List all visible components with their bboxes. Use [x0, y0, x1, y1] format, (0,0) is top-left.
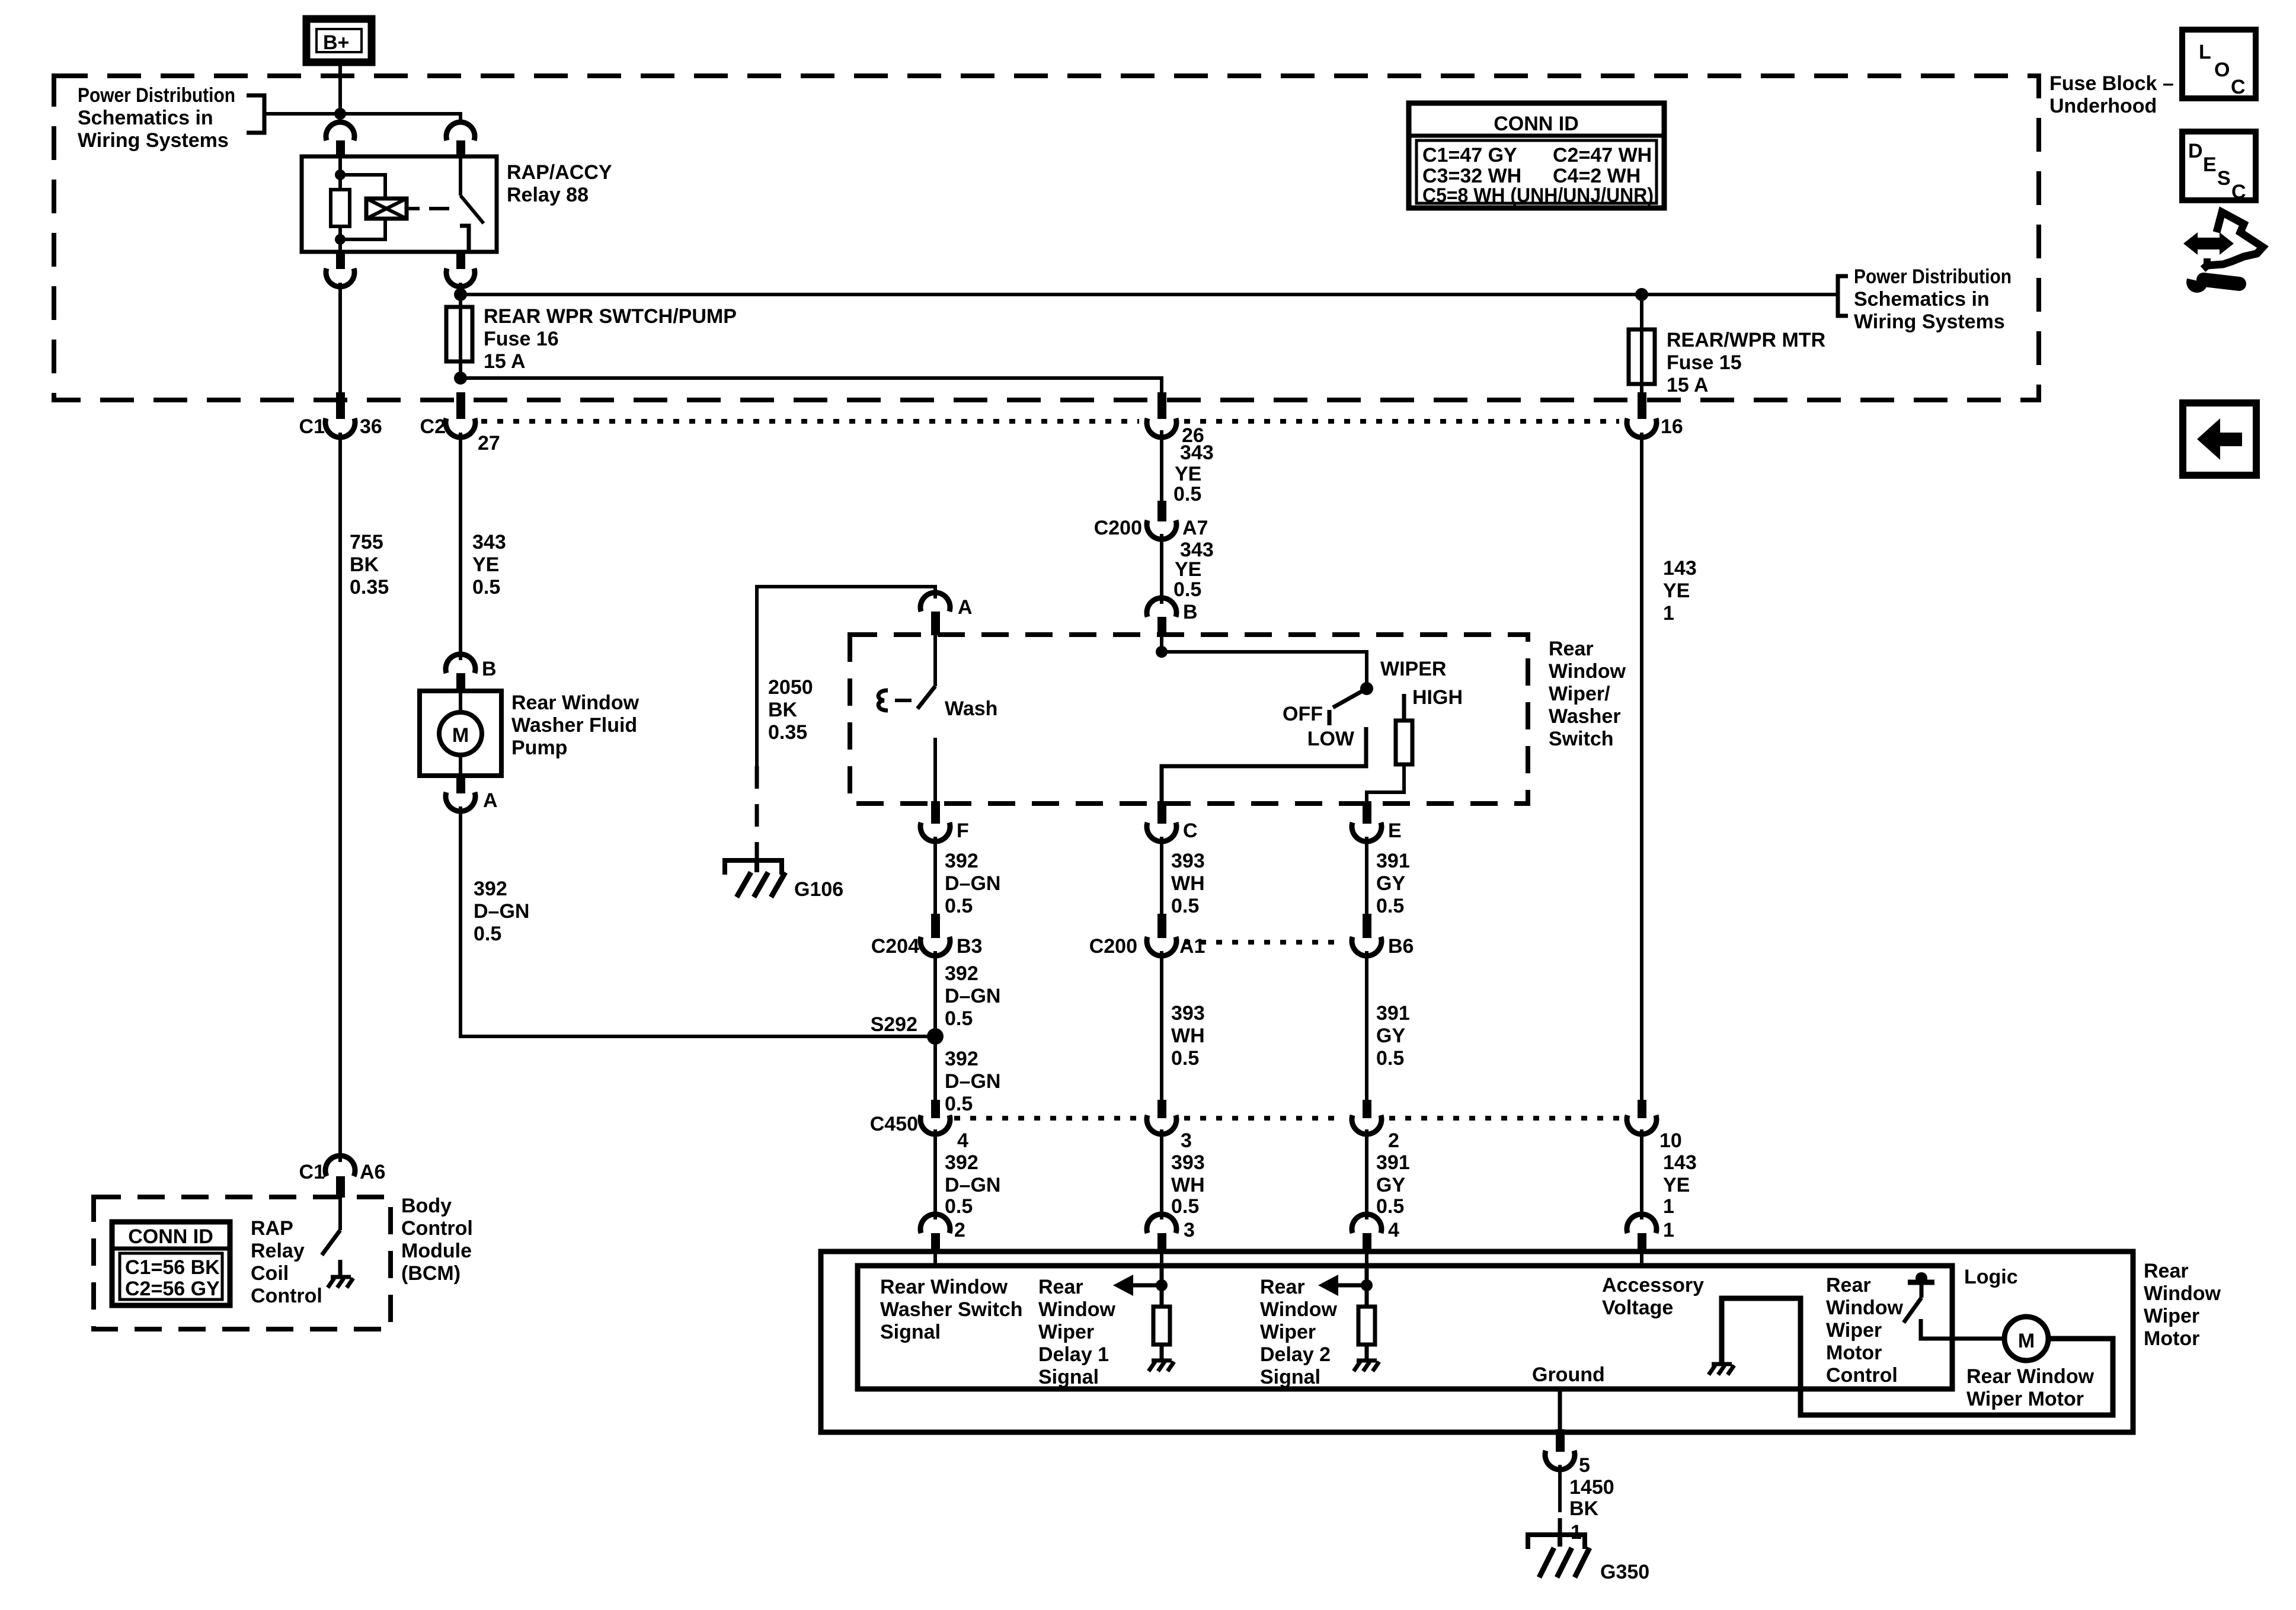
wire 5 to G350 — [1558, 1465, 1562, 1512]
svg-text:Delay 1: Delay 1 — [1038, 1343, 1109, 1366]
connector 16 — [1627, 392, 1683, 438]
svg-text:L: L — [2199, 41, 2211, 63]
wire pin4 into inner box — [1365, 1251, 1368, 1268]
svg-text:Wiper: Wiper — [1826, 1319, 1882, 1342]
connector C2 27 — [420, 392, 500, 454]
svg-text:392: 392 — [945, 962, 978, 985]
wire 26 down to C200 — [1160, 430, 1163, 504]
Body Control Module dashed box — [94, 1197, 391, 1329]
wire pump A down and across to S292 — [461, 806, 935, 1036]
svg-text:Signal: Signal — [1260, 1366, 1320, 1388]
svg-text:Schematics in: Schematics in — [78, 107, 213, 129]
motor pump M — [439, 712, 482, 755]
label Accessory Voltage — [1602, 1274, 1704, 1319]
wire relay coil feed — [338, 156, 342, 190]
svg-text:1450: 1450 — [1569, 1476, 1614, 1499]
wire label 1450 BK 1 — [1569, 1476, 1614, 1544]
connector C200 A1 — [1089, 914, 1205, 958]
node fuse15 top junction — [1635, 288, 1648, 301]
svg-text:0.5: 0.5 — [945, 1195, 973, 1218]
connector relay pin (coil) top — [326, 122, 354, 140]
wire relay switch common — [459, 156, 462, 196]
svg-text:0.5: 0.5 — [1173, 578, 1201, 601]
wire label 343 YE 0.5 (A7) — [1173, 539, 1214, 601]
svg-text:Relay: Relay — [251, 1240, 305, 1262]
wire B to wiper pivot — [1162, 637, 1367, 689]
svg-text:1: 1 — [1663, 1195, 1674, 1218]
wire label 392 D-GN 0.5 (pump) — [474, 878, 529, 945]
bracket to power distribution label (left) — [247, 95, 264, 133]
svg-text:393: 393 — [1171, 1002, 1205, 1025]
ground BCM internal — [328, 1277, 353, 1288]
svg-text:0.5: 0.5 — [1376, 1195, 1404, 1218]
svg-text:O: O — [2214, 59, 2230, 81]
svg-text:143: 143 — [1663, 1151, 1697, 1174]
svg-text:0.35: 0.35 — [768, 721, 807, 744]
wire F to C204 — [933, 837, 937, 917]
svg-text:LOW: LOW — [1307, 728, 1355, 750]
connector A (wash) — [920, 593, 973, 635]
label Fuse 15 — [1667, 329, 1825, 396]
svg-text:Washer: Washer — [1549, 705, 1621, 728]
svg-text:GY: GY — [1376, 872, 1405, 895]
svg-text:M: M — [452, 724, 469, 747]
CONN ID table (BCM) — [112, 1222, 230, 1305]
svg-text:C: C — [1183, 820, 1198, 842]
wire delay2 to ground — [1365, 1345, 1369, 1361]
CONN ID table (fuse block) — [1409, 103, 1664, 208]
svg-text:(BCM): (BCM) — [401, 1262, 461, 1285]
motor rear wiper M — [2004, 1317, 2048, 1361]
connector E — [1352, 801, 1402, 842]
svg-text:Voltage: Voltage — [1602, 1297, 1673, 1319]
Fuse Block - Underhood dashed box — [54, 76, 2039, 400]
svg-text:C204: C204 — [871, 935, 919, 958]
svg-text:YE: YE — [1663, 580, 1690, 602]
svg-text:Control: Control — [251, 1285, 322, 1307]
svg-text:Schematics in: Schematics in — [1854, 288, 1990, 311]
svg-text:Switch: Switch — [1549, 728, 1614, 750]
svg-text:Relay 88: Relay 88 — [507, 184, 589, 206]
svg-text:0.5: 0.5 — [945, 1007, 973, 1030]
svg-text:E: E — [1388, 820, 1402, 842]
svg-text:B3: B3 — [957, 935, 982, 958]
connector relay pin (switch) top — [446, 122, 475, 140]
svg-text:Window: Window — [1260, 1298, 1338, 1321]
wire wash feed horizontal — [757, 587, 935, 766]
connector C450 2 — [1352, 1100, 1399, 1152]
node relay coil bottom — [335, 234, 346, 245]
connector A (pump) — [446, 773, 498, 812]
svg-text:WIPER: WIPER — [1380, 658, 1446, 680]
wire motor return path — [1722, 1298, 2113, 1415]
wire delay2 input — [1365, 1266, 1369, 1307]
svg-text:Wiper: Wiper — [1038, 1321, 1094, 1343]
svg-text:392: 392 — [474, 878, 507, 900]
svg-text:Rear: Rear — [2144, 1260, 2189, 1282]
wire pin2 into inner box — [933, 1251, 937, 1268]
wire from bracket to B+ feed — [264, 112, 340, 116]
svg-text:D–GN: D–GN — [945, 985, 1000, 1007]
wire label 391 GY 0.5 (E) — [1376, 850, 1410, 917]
svg-text:REAR/WPR MTR: REAR/WPR MTR — [1667, 329, 1825, 351]
resistor delay2 — [1358, 1307, 1375, 1345]
label Rear Window Wiper Delay 2 Signal — [1260, 1276, 1338, 1388]
svg-text:Module: Module — [401, 1240, 472, 1262]
connector C1 36 — [299, 392, 382, 438]
wire C450-4 to pin 2 — [933, 1129, 937, 1219]
icon LOC box — [2182, 30, 2256, 98]
svg-text:B: B — [482, 658, 497, 680]
connector C450 4 — [870, 1100, 968, 1152]
svg-text:Signal: Signal — [1038, 1366, 1099, 1388]
svg-text:2050: 2050 — [768, 676, 813, 699]
svg-text:391: 391 — [1376, 1151, 1410, 1174]
svg-text:C450: C450 — [870, 1113, 918, 1135]
svg-text:YE: YE — [1175, 463, 1201, 485]
ground G106 — [725, 860, 843, 901]
wire label 391 GY 0.5 (B6) — [1376, 1002, 1410, 1070]
svg-text:WH: WH — [1171, 1174, 1205, 1196]
svg-text:Motor: Motor — [2144, 1327, 2199, 1350]
svg-text:Ground: Ground — [1532, 1363, 1605, 1386]
connector motor pin 4 — [1352, 1214, 1399, 1252]
svg-text:1: 1 — [1663, 602, 1674, 625]
svg-text:2: 2 — [954, 1219, 965, 1241]
wire HIGH resistor lower — [1367, 764, 1404, 804]
wire label 391 GY 0.5 (C450) — [1376, 1151, 1410, 1218]
svg-text:5: 5 — [1579, 1454, 1590, 1477]
svg-text:Control: Control — [1826, 1364, 1898, 1387]
wire BCM switch lower stub — [338, 1260, 343, 1275]
svg-text:C: C — [2231, 181, 2246, 203]
svg-text:YE: YE — [1663, 1174, 1690, 1196]
svg-text:OFF: OFF — [1283, 703, 1323, 725]
svg-text:C200: C200 — [1089, 935, 1137, 958]
svg-text:Wiper: Wiper — [1260, 1321, 1316, 1343]
svg-text:Underhood: Underhood — [2049, 95, 2157, 117]
svg-text:C2=56 GY: C2=56 GY — [125, 1278, 220, 1300]
wiper OFF contact — [1328, 710, 1332, 725]
svg-text:D–GN: D–GN — [945, 872, 1000, 895]
connector B (pump) — [446, 654, 497, 693]
svg-text:3: 3 — [1184, 1219, 1195, 1241]
svg-text:16: 16 — [1661, 415, 1683, 438]
dotted connector line C450 row — [954, 1116, 1139, 1121]
dotted connector line A1 to B6 — [1184, 940, 1344, 945]
svg-text:0.5: 0.5 — [1171, 1195, 1199, 1218]
svg-text:Rear Window: Rear Window — [1966, 1365, 2094, 1388]
wire wash switch lower — [933, 738, 937, 804]
svg-text:Accessory: Accessory — [1602, 1274, 1704, 1297]
svg-text:343: 343 — [472, 531, 506, 553]
svg-text:15 A: 15 A — [1667, 374, 1709, 396]
wire resistor bottom — [338, 226, 342, 252]
wire motor control contact to motor — [1921, 1319, 2006, 1339]
wire B+ down — [338, 62, 342, 124]
arrow delay2 — [1318, 1275, 1367, 1296]
svg-text:392: 392 — [945, 1048, 978, 1070]
relay coil (crossed box) — [366, 199, 407, 219]
node wiper switch feed junction — [1156, 646, 1168, 658]
wire label 343 YE 0.5 (26) — [1173, 441, 1214, 505]
wire C to C200 A1 — [1160, 837, 1163, 917]
svg-text:391: 391 — [1376, 850, 1410, 872]
connector C450 3 — [1147, 1100, 1192, 1152]
resistor delay1 — [1153, 1307, 1170, 1345]
label Power Distribution Schematics in Wiring Systems (left) — [78, 84, 235, 152]
motor control switch blade — [1904, 1298, 1921, 1323]
ground delay2 — [1354, 1361, 1379, 1371]
wire branch to relay pin 2 — [340, 114, 461, 124]
wire pump motor bottom — [459, 755, 462, 776]
svg-text:0.5: 0.5 — [945, 895, 973, 917]
wash switch fixed contact — [878, 690, 888, 710]
svg-text:Power Distribution: Power Distribution — [78, 84, 235, 107]
svg-text:GY: GY — [1376, 1025, 1405, 1047]
label Rear Window Wiper Motor Control — [1826, 1274, 1904, 1387]
svg-text:S: S — [2217, 167, 2231, 190]
wire A1 down to C450 row — [1160, 951, 1163, 1103]
svg-text:B+: B+ — [323, 31, 349, 54]
svg-text:755: 755 — [350, 531, 383, 553]
wire dashed drop to G106 — [755, 766, 759, 858]
wire 16 down to C450 row — [1640, 433, 1643, 1103]
svg-text:G106: G106 — [794, 878, 843, 901]
dotted connector line C2 to 16 — [481, 419, 1139, 424]
svg-text:Wiper Motor: Wiper Motor — [1966, 1388, 2084, 1410]
ground delay1 — [1149, 1361, 1174, 1371]
wire E to B6 — [1365, 837, 1368, 917]
wire C1 drop to BCM — [338, 433, 342, 1162]
connector C1 A6 — [299, 1156, 386, 1198]
label Body Control Module (BCM) — [401, 1195, 473, 1285]
svg-text:Wiring Systems: Wiring Systems — [1854, 311, 2005, 333]
B+ battery terminal box — [306, 19, 372, 62]
connector relay pin (switch) bottom — [456, 252, 465, 269]
svg-text:Rear: Rear — [1549, 638, 1594, 660]
bracket to power distribution label (right) — [1838, 276, 1848, 316]
svg-text:D–GN: D–GN — [945, 1174, 1000, 1196]
wire delay1 input — [1160, 1266, 1164, 1307]
svg-text:Window: Window — [1038, 1298, 1116, 1321]
wire C200 A7 to B — [1160, 534, 1163, 604]
wire label 393 WH 0.5 (C450) — [1171, 1151, 1205, 1218]
Rear Window Wiper Motor inner box — [858, 1266, 1952, 1389]
wire label 393 WH 0.5 (C) — [1171, 850, 1205, 917]
connector relay pin (coil) bottom — [336, 252, 345, 269]
svg-text:GY: GY — [1376, 1174, 1405, 1196]
wire label 343 YE 0.5 (C2) — [472, 531, 506, 598]
svg-text:Wiper/: Wiper/ — [1549, 683, 1610, 705]
ground motor internal — [1709, 1364, 1734, 1375]
svg-text:F: F — [957, 820, 969, 842]
svg-text:C200: C200 — [1094, 517, 1142, 539]
label Rear Window Wiper Delay 1 Signal — [1038, 1276, 1116, 1388]
svg-text:393: 393 — [1171, 1151, 1205, 1174]
mechanical link dash relay — [429, 207, 449, 210]
wire B6 down to C450 row — [1365, 951, 1368, 1103]
svg-text:HIGH: HIGH — [1412, 686, 1463, 709]
svg-text:A6: A6 — [360, 1161, 385, 1183]
svg-text:1: 1 — [1663, 1219, 1674, 1241]
svg-text:Rear: Rear — [1038, 1276, 1083, 1298]
connector C204 B3 — [871, 914, 983, 958]
wire C450-3 to pin 3 — [1160, 1129, 1163, 1219]
label Rear Window Wiper Motor (right) — [2144, 1260, 2221, 1350]
wash switch blade — [917, 686, 935, 709]
svg-text:Control: Control — [401, 1217, 473, 1240]
label Power Distribution Schematics in Wiring Systems (right) — [1854, 265, 2012, 333]
svg-text:Power Distribution: Power Distribution — [1854, 265, 2012, 288]
svg-text:Delay 2: Delay 2 — [1260, 1343, 1331, 1366]
wire delay1 to ground — [1160, 1345, 1164, 1361]
node fuse16 bottom junction — [454, 372, 467, 385]
svg-text:A: A — [483, 789, 498, 812]
fuse REAR/WPR MTR Fuse 15 — [1629, 295, 1655, 393]
svg-text:Pump: Pump — [511, 737, 567, 759]
wire label 755 BK 0.35 — [350, 531, 389, 598]
svg-text:CONN ID: CONN ID — [1494, 113, 1579, 135]
svg-text:15 A: 15 A — [484, 350, 526, 373]
svg-text:393: 393 — [1171, 850, 1205, 872]
svg-text:Rear: Rear — [1826, 1274, 1871, 1297]
svg-text:Wiring Systems: Wiring Systems — [78, 129, 229, 152]
connector F — [920, 801, 969, 842]
svg-text:Window: Window — [1549, 660, 1626, 683]
svg-text:27: 27 — [478, 432, 500, 454]
label Rear Window Washer Fluid Pump — [511, 692, 639, 759]
wire C450-10 to pin 1 — [1640, 1129, 1643, 1219]
label Rear Window Washer Switch Signal — [880, 1276, 1023, 1343]
svg-text:Logic: Logic — [1964, 1266, 2018, 1288]
label Fuse Block - Underhood — [2049, 72, 2174, 117]
svg-text:Motor: Motor — [1826, 1342, 1882, 1364]
wire label 392 D-GN 0.5 (C450) — [945, 1151, 1000, 1218]
wiper switch blade — [1333, 689, 1367, 708]
node S292 splice — [871, 1013, 944, 1045]
svg-text:D: D — [2188, 140, 2203, 162]
wire BCM switch feed — [338, 1197, 342, 1230]
node relay coil top — [335, 169, 346, 180]
svg-text:Wash: Wash — [945, 697, 997, 720]
svg-text:36: 36 — [360, 415, 382, 438]
svg-text:REAR WPR SWTCH/PUMP: REAR WPR SWTCH/PUMP — [484, 305, 737, 328]
svg-text:392: 392 — [945, 1151, 978, 1174]
svg-text:0.5: 0.5 — [945, 1093, 973, 1115]
svg-text:4: 4 — [1388, 1219, 1399, 1241]
svg-text:0.5: 0.5 — [1376, 895, 1404, 917]
wire label 2050 BK 0.35 — [768, 676, 813, 744]
wire dashed to G350 — [1558, 1518, 1562, 1532]
svg-text:S292: S292 — [871, 1013, 917, 1036]
svg-text:Signal: Signal — [880, 1321, 941, 1343]
svg-text:Window: Window — [1826, 1297, 1904, 1319]
Rear Window Wiper/Washer Switch dashed box — [850, 635, 1528, 804]
svg-text:0.5: 0.5 — [1376, 1047, 1404, 1070]
connector C200 A7 — [1094, 501, 1208, 539]
svg-text:Rear: Rear — [1260, 1276, 1305, 1298]
svg-text:RAP/ACCY: RAP/ACCY — [507, 161, 612, 184]
svg-text:A1: A1 — [1179, 935, 1205, 958]
wire relay out right down to fuse junction — [459, 283, 462, 308]
wire label 143 YE 1 — [1663, 557, 1697, 625]
svg-text:YE: YE — [1175, 558, 1201, 581]
relay RAP/ACCY Relay 88 box — [302, 156, 497, 252]
wire LOW contact path — [1162, 727, 1366, 804]
wire wash switch upper — [933, 635, 937, 686]
svg-text:BK: BK — [350, 553, 379, 576]
svg-text:0.35: 0.35 — [350, 576, 389, 598]
svg-text:392: 392 — [945, 850, 978, 872]
wire C2 down to pump B — [459, 433, 462, 660]
connector motor pin 1 — [1627, 1214, 1674, 1252]
svg-text:143: 143 — [1663, 557, 1697, 580]
svg-text:C1=56 BK: C1=56 BK — [125, 1256, 220, 1279]
svg-text:B: B — [1183, 601, 1198, 623]
mechanical link dash wash — [895, 699, 912, 702]
wire coil bottom branch — [340, 219, 385, 239]
label Fuse 16 — [484, 305, 737, 373]
node B+ branch junction — [334, 108, 346, 120]
connector B (wiper switch) — [1147, 598, 1198, 637]
svg-text:343: 343 — [1180, 441, 1214, 464]
svg-text:C1: C1 — [299, 415, 325, 438]
svg-text:Coil: Coil — [251, 1262, 289, 1285]
wire label 143 YE 1 (C450) — [1663, 1151, 1697, 1218]
svg-text:Rear Window: Rear Window — [880, 1276, 1008, 1298]
wire label 392 D-GN 0.5 (B3) — [945, 962, 1000, 1030]
resistor wiper HIGH dropping resistor — [1396, 721, 1412, 764]
arrow delay1 — [1113, 1275, 1162, 1296]
svg-text:Window: Window — [2144, 1282, 2221, 1305]
svg-text:Fuse Block –: Fuse Block – — [2049, 72, 2174, 95]
node fuse16 top junction — [454, 288, 467, 301]
svg-text:A: A — [958, 596, 973, 619]
connector C — [1147, 801, 1198, 842]
label RAP/ACCY Relay 88 — [507, 161, 612, 206]
connector B6 — [1352, 914, 1414, 958]
svg-text:Wiper: Wiper — [2144, 1305, 2199, 1327]
label Rear Window Wiper/Washer Switch — [1549, 638, 1626, 750]
wire relay out left down to C1 — [338, 283, 342, 393]
wire ground lead inside motor box — [1558, 1389, 1562, 1432]
node wiper pivot — [1360, 682, 1373, 695]
wire pin3 into inner box — [1160, 1251, 1163, 1268]
svg-text:WH: WH — [1171, 872, 1205, 895]
svg-text:D–GN: D–GN — [474, 900, 529, 923]
svg-text:C2=47 WH: C2=47 WH — [1553, 144, 1652, 167]
wire coil armature stub — [407, 207, 420, 210]
svg-text:0.5: 0.5 — [1171, 1047, 1199, 1070]
svg-text:Rear Window: Rear Window — [511, 692, 639, 714]
relay switch blade — [461, 196, 484, 223]
svg-text:M: M — [2018, 1330, 2035, 1352]
svg-text:C5=8 WH (UNH/UNJ/UNR): C5=8 WH (UNH/UNJ/UNR) — [1422, 184, 1654, 207]
svg-text:RAP: RAP — [251, 1217, 293, 1240]
svg-text:WH: WH — [1171, 1025, 1205, 1047]
wire label 393 WH 0.5 (A1) — [1171, 1002, 1205, 1070]
svg-text:BK: BK — [1569, 1497, 1599, 1520]
wire label 392 D-GN 0.5 (S292) — [945, 1048, 1000, 1115]
svg-text:Fuse 16: Fuse 16 — [484, 328, 559, 350]
svg-text:E: E — [2203, 153, 2217, 176]
relay switch fixed contact — [460, 226, 469, 252]
svg-text:4: 4 — [957, 1129, 968, 1152]
wire fuse16 to column 26 — [461, 378, 1162, 393]
svg-text:10: 10 — [1659, 1129, 1682, 1152]
Rear Window Washer Fluid Pump box — [420, 691, 501, 776]
